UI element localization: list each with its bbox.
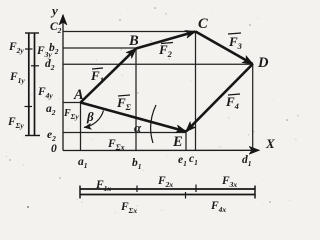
angle beta arc at A bbox=[84, 111, 104, 128]
left scale bar bottom cap bbox=[25, 135, 40, 137]
svg-text:E: E bbox=[172, 134, 183, 150]
left scale bar left line bbox=[28, 33, 30, 136]
bottom scale bar tick b1 bbox=[136, 186, 138, 193]
vector F1 A to B bbox=[81, 49, 137, 103]
construction line C-c1 vertical bbox=[195, 32, 197, 151]
svg-text:β: β bbox=[86, 109, 94, 124]
construction line E-e1 vertical bbox=[185, 132, 187, 151]
left scale bar tick d2 bbox=[31, 65, 39, 67]
svg-text:α: α bbox=[134, 120, 142, 135]
bottom scale bar left cap bbox=[79, 186, 81, 199]
construction line A-a1 vertical bbox=[80, 103, 82, 151]
svg-text:y: y bbox=[50, 3, 58, 18]
svg-text:0: 0 bbox=[51, 143, 57, 155]
vector F2 B to C bbox=[136, 32, 196, 49]
vector F4 D to E bbox=[186, 64, 253, 132]
vector F4 label bbox=[225, 94, 240, 111]
bottom scale bar right cap bbox=[254, 186, 256, 199]
svg-text:D: D bbox=[257, 55, 269, 71]
bottom scale bar lower line bbox=[80, 194, 255, 196]
vector F1 label bbox=[90, 68, 104, 85]
svg-text:A: A bbox=[73, 87, 84, 103]
construction line a2-A horizontal bbox=[63, 102, 81, 104]
svg-text:X: X bbox=[265, 136, 275, 151]
bottom scale bar tick c1 bbox=[195, 185, 197, 193]
vector F-sigma label bbox=[116, 95, 132, 112]
svg-text:C: C bbox=[198, 16, 208, 32]
construction line d2-D horizontal bbox=[63, 63, 253, 65]
angle alpha arc at E bbox=[151, 105, 156, 143]
scan noise speckles bbox=[3, 7, 299, 213]
construction line B-b1 vertical bbox=[135, 49, 137, 151]
construction line D-d1 vertical bbox=[252, 64, 254, 151]
svg-text:B: B bbox=[128, 33, 139, 49]
y-axis bbox=[62, 15, 64, 151]
vector F2 label bbox=[158, 42, 173, 59]
construction line e2-E horizontal bbox=[63, 132, 186, 134]
vector F-sigma A to E bbox=[81, 103, 187, 132]
vector F3 label bbox=[228, 33, 243, 51]
vector F3 C to D bbox=[196, 32, 253, 65]
construction line c2-C horizontal bbox=[63, 31, 196, 33]
bottom scale bar tick e1 bbox=[185, 192, 187, 199]
left scale bar top cap bbox=[25, 32, 39, 34]
left scale bar tick b2 bbox=[25, 48, 33, 50]
construction line b2-B horizontal bbox=[63, 47, 136, 49]
x-axis bbox=[63, 149, 259, 151]
left scale bar tick a2 bbox=[25, 106, 33, 108]
bottom scale bar upper line bbox=[80, 188, 255, 190]
left scale bar right line bbox=[34, 33, 36, 136]
